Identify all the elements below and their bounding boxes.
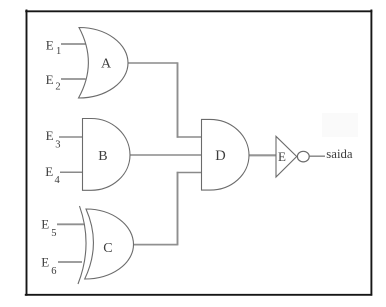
svg-text:E: E xyxy=(41,217,49,232)
wire D output to inverter xyxy=(249,154,277,156)
svg-text:E: E xyxy=(46,38,54,53)
wire E3 input xyxy=(59,136,83,138)
wire A output horizontal xyxy=(127,62,178,64)
svg-text:2: 2 xyxy=(55,82,60,93)
or-gate A xyxy=(79,28,129,99)
svg-text:6: 6 xyxy=(51,266,56,277)
svg-text:E: E xyxy=(278,149,286,164)
wire A to D vertical xyxy=(177,62,179,137)
svg-text:B: B xyxy=(98,149,107,164)
svg-text:C: C xyxy=(103,241,112,256)
wire E2 input xyxy=(61,78,86,80)
faint smudge above saida xyxy=(322,113,358,137)
svg-text:E: E xyxy=(46,128,54,143)
wire C output horizontal xyxy=(133,244,178,246)
wire into D input 3 xyxy=(177,172,202,174)
border frame left xyxy=(26,10,28,296)
svg-text:3: 3 xyxy=(55,139,60,150)
wire E1 input xyxy=(61,43,86,45)
border frame right xyxy=(370,10,372,296)
wire E5 input xyxy=(57,223,84,225)
wire E4 input xyxy=(60,171,83,173)
wire B output to D input 2 xyxy=(130,154,203,156)
wire E6 input xyxy=(58,261,82,263)
inverter E bubble xyxy=(297,151,309,162)
svg-text:1: 1 xyxy=(56,46,61,57)
and-gate D xyxy=(202,119,250,190)
xor-gate C leading arc xyxy=(78,206,86,284)
wire C to D vertical xyxy=(177,172,179,246)
wire into D input 1 xyxy=(177,136,202,138)
svg-text:4: 4 xyxy=(55,175,61,186)
wire inverter bubble to saida xyxy=(309,155,325,157)
svg-text:E: E xyxy=(45,164,53,179)
border frame bottom xyxy=(25,294,372,296)
inverter E triangle xyxy=(276,136,297,177)
svg-text:D: D xyxy=(215,148,225,164)
svg-text:E: E xyxy=(46,72,54,87)
and-gate B xyxy=(83,119,131,191)
svg-text:E: E xyxy=(41,255,49,270)
svg-text:5: 5 xyxy=(51,228,56,239)
border frame top xyxy=(25,10,372,12)
svg-text:saida: saida xyxy=(326,147,353,161)
xor-gate C body xyxy=(85,209,134,279)
svg-text:A: A xyxy=(101,57,112,72)
